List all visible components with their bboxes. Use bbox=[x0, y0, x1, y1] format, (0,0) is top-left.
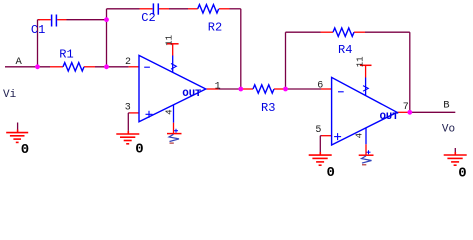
svg-text:R2: R2 bbox=[208, 20, 222, 34]
svg-text:4: 4 bbox=[164, 109, 174, 114]
svg-text:2: 2 bbox=[125, 57, 131, 68]
svg-text:1: 1 bbox=[215, 81, 221, 92]
svg-text:3: 3 bbox=[125, 102, 131, 113]
svg-text:R1: R1 bbox=[59, 48, 73, 62]
svg-text:C1: C1 bbox=[31, 23, 45, 37]
svg-text:7: 7 bbox=[403, 102, 409, 113]
svg-text:5: 5 bbox=[315, 125, 321, 136]
svg-text:Vi: Vi bbox=[3, 89, 17, 101]
svg-text:6: 6 bbox=[317, 81, 323, 92]
svg-text:R4: R4 bbox=[338, 43, 352, 57]
svg-text:A: A bbox=[16, 56, 23, 68]
svg-text:OUT: OUT bbox=[380, 111, 399, 123]
svg-text:4: 4 bbox=[354, 133, 364, 138]
svg-text:Vo: Vo bbox=[442, 124, 455, 136]
svg-text:11: 11 bbox=[356, 56, 366, 67]
svg-text:C2: C2 bbox=[141, 11, 155, 25]
svg-text:0: 0 bbox=[327, 165, 335, 181]
svg-text:R3: R3 bbox=[261, 101, 275, 115]
svg-text:B: B bbox=[443, 100, 449, 112]
svg-text:11: 11 bbox=[164, 35, 174, 46]
svg-text:0: 0 bbox=[21, 142, 29, 158]
svg-text:0: 0 bbox=[135, 142, 143, 158]
svg-text:0: 0 bbox=[458, 165, 466, 181]
svg-text:OUT: OUT bbox=[182, 88, 201, 100]
